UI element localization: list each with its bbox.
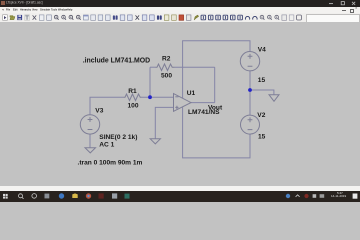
svg-text:15: 15 xyxy=(258,133,266,140)
svg-text:V4: V4 xyxy=(258,46,266,53)
svg-text:R2: R2 xyxy=(162,56,171,63)
svg-text:15: 15 xyxy=(258,77,266,84)
svg-text:500: 500 xyxy=(161,72,172,79)
svg-text:.tran 0 100m 90m 1m: .tran 0 100m 90m 1m xyxy=(78,159,143,166)
svg-text:R1: R1 xyxy=(128,88,137,95)
svg-text:U1: U1 xyxy=(187,90,196,97)
svg-text:LM741/NS: LM741/NS xyxy=(188,109,220,116)
svg-text:.include LM741.MOD: .include LM741.MOD xyxy=(83,58,150,65)
svg-text:100: 100 xyxy=(128,103,139,110)
svg-text:V3: V3 xyxy=(95,107,103,114)
svg-text:SINE(0 2 1k): SINE(0 2 1k) xyxy=(99,134,137,141)
svg-text:AC 1: AC 1 xyxy=(99,141,114,148)
svg-text:V2: V2 xyxy=(257,112,265,119)
